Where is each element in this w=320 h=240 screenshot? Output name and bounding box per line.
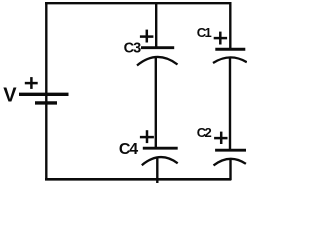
svg-text:C3: C3 <box>124 41 141 57</box>
C3 plus sign <box>140 30 154 43</box>
wire right branch bottom segment <box>229 160 231 181</box>
C4 plus sign <box>140 130 154 143</box>
wire left branch <box>45 2 47 180</box>
svg-text:C4: C4 <box>119 141 138 158</box>
wire middle branch bottom segment <box>156 158 158 184</box>
capacitor C2 <box>214 150 247 165</box>
label C2 <box>197 125 212 140</box>
wire right branch top segment <box>229 3 231 50</box>
C2 plus sign <box>214 132 227 144</box>
C1 plus sign <box>214 32 227 45</box>
battery V <box>19 94 69 103</box>
label V <box>3 85 17 107</box>
wire middle branch center segment <box>155 58 157 148</box>
wire right branch center segment <box>229 58 231 150</box>
label C4 <box>119 141 138 158</box>
label C3 <box>124 41 141 57</box>
svg-text:V: V <box>3 85 17 107</box>
capacitor C4 <box>142 148 178 165</box>
capacitor C3 <box>137 48 178 66</box>
wire middle branch top segment <box>155 3 157 48</box>
svg-text:C2: C2 <box>197 125 212 140</box>
svg-text:C1: C1 <box>197 25 212 40</box>
label C1 <box>197 25 212 40</box>
capacitor C1 <box>213 49 247 63</box>
battery plus sign <box>25 77 38 89</box>
wire bottom rail <box>45 178 231 181</box>
wire top rail <box>45 2 232 4</box>
